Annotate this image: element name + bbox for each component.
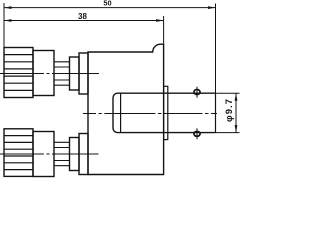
BNC barrel outer top edge bbox=[168, 92, 216, 94]
BNC barrel end face bbox=[215, 93, 217, 132]
bayonet stud top axis tick bbox=[196, 87, 198, 98]
dimension line 50 bbox=[4, 7, 216, 9]
centerline bottom binding post axis bbox=[0, 153, 99, 155]
top collar 2 bbox=[79, 53, 88, 94]
svg-text:50: 50 bbox=[103, 0, 111, 8]
bayonet stud top bbox=[194, 90, 200, 95]
arrow down dia 9.7 bbox=[235, 125, 238, 133]
centerline top binding post axis bbox=[0, 73, 99, 75]
BNC barrel outer bottom edge bbox=[168, 132, 216, 134]
bottom knob skirt bbox=[33, 132, 54, 177]
arrow left dim 50 bbox=[4, 6, 12, 9]
top collar 1 bbox=[70, 57, 80, 90]
BNC flange plate bbox=[164, 86, 168, 139]
top knob skirt bbox=[33, 51, 54, 96]
bottom threaded shaft bbox=[54, 142, 70, 165]
arrow right dim 38 bbox=[156, 19, 164, 22]
top knob (knurled) bbox=[4, 48, 33, 98]
arrow up dia 9.7 bbox=[235, 93, 238, 101]
svg-text:φ9.7: φ9.7 bbox=[224, 98, 234, 122]
bottom collar 1 bbox=[70, 138, 80, 171]
extension line for dim 38 (x=163.6) bbox=[163, 16, 165, 44]
body outline with top-right filleted boss bbox=[88, 44, 164, 174]
top knob knurl ridges bbox=[4, 55, 33, 91]
bayonet stud bottom bbox=[194, 131, 200, 136]
BNC shell inner end line bbox=[120, 93, 122, 132]
bottom knob knurl ridges bbox=[4, 136, 33, 170]
BNC shell inside body (rounded end) bbox=[113, 93, 168, 132]
top threaded shaft bbox=[54, 62, 70, 85]
extension line left (x=4) bbox=[3, 3, 5, 48]
extension lines for dia 9.7 bbox=[216, 93, 240, 132]
bayonet stud bottom axis tick bbox=[196, 128, 198, 139]
bottom knob (knurled) bbox=[4, 129, 33, 177]
dimension line 38 bbox=[4, 20, 164, 22]
arrow right dim 50 bbox=[208, 6, 216, 9]
dimension line dia 9.7 bbox=[235, 93, 237, 132]
bottom collar 2 bbox=[79, 134, 88, 175]
svg-text:38: 38 bbox=[78, 12, 87, 21]
arrow left dim 38 bbox=[4, 19, 12, 22]
centerline BNC axis bbox=[83, 113, 217, 115]
extension line right for dim 50 (x=215.5) bbox=[215, 4, 217, 94]
